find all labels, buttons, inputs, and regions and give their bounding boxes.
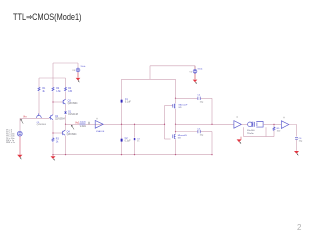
R2 labels [56, 88, 61, 93]
junction output-C4 [211, 124, 212, 125]
C1 labels [125, 99, 131, 104]
junction output node [65, 124, 66, 125]
node Vo1 label [75, 121, 80, 125]
Q2 labels [55, 116, 66, 121]
svg-text:D1N4148: D1N4148 [68, 114, 78, 116]
junction C3 top [134, 124, 135, 125]
wire top-left rail [53, 62, 78, 64]
wire output Vo1 [66, 123, 165, 125]
junction bus-rail2 [52, 154, 53, 155]
ground C6 [294, 151, 299, 156]
junction rail4 top cap [175, 98, 176, 99]
current marker tick [88, 122, 90, 125]
buffer U2 power mark [237, 116, 238, 117]
resistor R2 [52, 87, 54, 91]
E1 label [96, 130, 105, 133]
junction box-left bus [121, 154, 122, 155]
Q1 labels [37, 122, 47, 126]
R4 labels [68, 88, 73, 93]
buffer E1 [95, 121, 103, 129]
title text [13, 12, 82, 23]
junction R5 top [273, 124, 274, 125]
C3 label [137, 138, 141, 142]
svg-text:Z0=100: Z0=100 [247, 130, 255, 132]
svg-text:TD=5n: TD=5n [247, 133, 254, 135]
svg-text:Q2N3904: Q2N3904 [37, 124, 47, 126]
transmission line T1 [248, 122, 263, 128]
svg-text:5Vdc: 5Vdc [198, 68, 204, 70]
source V1 [17, 131, 22, 136]
svg-text:Q2N3904: Q2N3904 [55, 118, 66, 120]
ground V3 [76, 78, 81, 82]
diode D1 [64, 112, 67, 114]
svg-text:EVALUE: EVALUE [96, 130, 105, 133]
wire rail2 [52, 78, 54, 155]
capacitor C5 [198, 130, 200, 133]
junction rail2-Q3base [52, 101, 53, 102]
wire Q4 base [53, 132, 62, 134]
wire C3 drop [134, 124, 136, 154]
wire box left [121, 79, 123, 154]
R5 labels [277, 128, 281, 133]
svg-text:Q2N3904: Q2N3904 [68, 103, 79, 105]
V2 labels [189, 68, 203, 73]
junction rail4 output [175, 124, 176, 125]
page number 2 [297, 223, 302, 232]
wire stage2 output [176, 123, 234, 125]
wire gate bus [165, 106, 173, 140]
svg-text:5Vdc: 5Vdc [81, 66, 87, 68]
wire rail4 [175, 79, 177, 154]
wire stage2 riser [149, 66, 151, 80]
capacitor C2 [121, 139, 123, 142]
wire V1 to ground [19, 136, 21, 154]
wire Q3 base [53, 101, 62, 103]
junction C5 bus [211, 154, 212, 155]
capacitor C4 [198, 97, 200, 100]
wire stage2 top feed [150, 65, 195, 67]
wire box top [122, 78, 176, 80]
svg-text:Q2N3904: Q2N3904 [67, 134, 78, 136]
buffer E1 power mark [96, 118, 97, 119]
ground bus bottom [53, 154, 212, 156]
junction rail4 bottom cap [175, 131, 176, 132]
wire U3 out [289, 125, 297, 137]
resistor R5 vertical [273, 124, 275, 136]
Q4 labels [67, 132, 78, 137]
V1 parameter text [6, 129, 16, 144]
resistor R1 [38, 87, 40, 91]
R3 labels [56, 139, 60, 144]
svg-text:0.4583: 0.4583 [80, 126, 86, 128]
R1 labels [42, 88, 46, 93]
buffer U3 power mark [283, 117, 284, 118]
D1 labels [68, 112, 78, 117]
V3 labels [72, 66, 86, 72]
wire input horizontal [20, 117, 50, 119]
junction rail4 bus [175, 154, 176, 155]
M2 labels [178, 134, 187, 140]
C2 labels [125, 138, 131, 143]
junction C3 bus [134, 154, 135, 155]
M1 labels [179, 103, 188, 109]
svg-text:0.1uF: 0.1uF [125, 102, 131, 104]
wire riser left [52, 63, 54, 78]
C5 labels [197, 128, 204, 136]
wire rail1 [38, 78, 40, 115]
transistor Q2 [49, 115, 53, 120]
capacitor C3 [134, 138, 136, 140]
Q3 labels [68, 101, 79, 106]
junction rail2-Q4base [52, 132, 53, 133]
buffer U3 [281, 121, 288, 129]
mosfet M2 [173, 134, 176, 138]
probe arrow output [71, 125, 74, 129]
svg-text:3.561V: 3.561V [80, 121, 87, 123]
transistor Q1 [36, 113, 41, 117]
svg-text:2: 2 [297, 223, 302, 232]
svg-text:Vin: Vin [23, 114, 27, 118]
svg-text:TTL⇒CMOS(Mode1): TTL⇒CMOS(Mode1) [13, 12, 82, 23]
C6 labels [299, 138, 303, 143]
capacitor C1 [121, 100, 123, 103]
probe arrow input [21, 119, 24, 123]
source V3 [76, 63, 80, 78]
buffer U2 [234, 121, 242, 129]
ground T1 [237, 137, 242, 144]
C4 labels [197, 95, 204, 104]
wire vcc bus [39, 77, 66, 79]
svg-text:0.1uF: 0.1uF [125, 141, 131, 143]
transistor Q4 [62, 130, 65, 135]
wire top cap [176, 98, 213, 124]
junction bus-rail3 [65, 154, 66, 155]
transistor Q3 [62, 99, 65, 104]
ground R3 [51, 155, 56, 161]
wire U2 out [241, 123, 247, 125]
capacitor C6 [295, 138, 298, 151]
mosfet M1 [173, 104, 176, 108]
T1 attribute box [244, 127, 274, 136]
svg-text:PER = 2u: PER = 2u [6, 142, 16, 144]
resistor R4 [65, 87, 67, 91]
node Vin label [23, 114, 27, 118]
junction box-left output [121, 124, 122, 125]
wire T1 out [263, 123, 281, 125]
resistor R3 [52, 138, 54, 142]
wire rail3 [65, 78, 67, 155]
junction gate bus [164, 124, 165, 125]
ground V2 [193, 80, 198, 84]
source V2 [193, 66, 197, 80]
wire bottom cap [176, 132, 213, 155]
wire input vertical [19, 118, 21, 131]
ground V1 [17, 155, 22, 160]
bias annotation box [80, 121, 87, 128]
